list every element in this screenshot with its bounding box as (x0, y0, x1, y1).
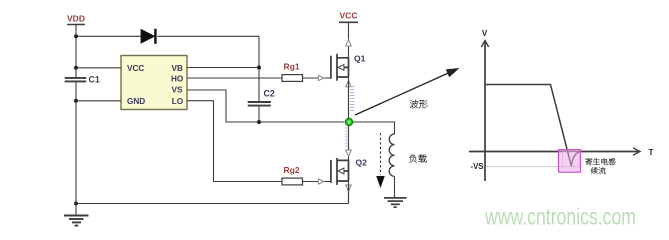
power rail VCC (339, 11, 358, 23)
capacitor C2 (248, 88, 275, 105)
label 负载 (load) (409, 154, 426, 162)
wire: GND pin to rail (76, 100, 121, 102)
svg-text:-VS: -VS (471, 162, 484, 171)
wire: inductor to ground (394, 176, 396, 197)
wire: LO pin to Rg2 (187, 101, 282, 182)
svg-text:VCC: VCC (340, 11, 358, 21)
wire: VCC to Q1 drain (348, 22, 350, 58)
wire: Q1 source to switch node (348, 77, 350, 118)
svg-text:C1: C1 (89, 75, 100, 85)
wire: switch node to Q2 drain (348, 122, 350, 160)
junction: VDD / top rail (74, 34, 78, 38)
driver IC U1 (121, 56, 187, 110)
svg-text:HO: HO (171, 74, 184, 83)
svg-text:Q1: Q1 (354, 53, 366, 63)
svg-text:C2: C2 (264, 88, 275, 98)
pin arrow: Q1 source (346, 81, 352, 87)
parasitic inductance hatch (lower) (345, 128, 348, 146)
V axis (481, 29, 488, 181)
ground (left) (64, 204, 89, 226)
wire: Rg1 to Q1 gate (303, 77, 331, 79)
pin arrow: Q2 source (346, 185, 352, 191)
pin arrow: Q1 drain (346, 40, 352, 46)
wire: VB pin to bootstrap node (187, 67, 259, 69)
wire: bootstrap vertical (VB/C2) (258, 36, 260, 122)
label 寄生电感 续流 (585, 158, 615, 165)
transistor Q1 (331, 53, 366, 81)
junction: VB wire (257, 66, 261, 70)
wire: VCC pin to rail (76, 67, 121, 69)
power rail VDD (67, 14, 85, 25)
annotation arrow to waveform plot (355, 68, 460, 115)
junction: VCC pin / rail (74, 66, 78, 70)
wire: VDD rail vertical (75, 25, 77, 204)
svg-text:www.cntronics.com: www.cntronics.com (484, 203, 636, 229)
svg-text:VCC: VCC (127, 64, 144, 73)
junction: C2 / VS wire (257, 120, 261, 124)
pin arrow: Q2 gate (318, 179, 323, 184)
wire: HO pin to Rg1 (187, 77, 282, 79)
pin arrow: Q1 gate (318, 75, 323, 80)
ground (load) (384, 198, 407, 207)
-VS level label and line (471, 152, 581, 171)
svg-text:GND: GND (127, 97, 145, 106)
waveform trace (486, 85, 580, 167)
svg-text:LO: LO (172, 97, 184, 106)
node VS (switch node) (346, 119, 353, 126)
wire: VS pin to switch node (187, 90, 345, 122)
highlight box (parasitic inductance freewheeling) (559, 150, 581, 173)
wire: bottom ground rail (76, 203, 349, 205)
T axis (469, 148, 654, 157)
parasitic inductance hatch (upper) (350, 87, 354, 111)
svg-text:VB: VB (172, 64, 183, 73)
transistor Q2 (331, 158, 367, 185)
wire: Rg2 to Q2 gate (303, 181, 331, 183)
svg-text:V: V (482, 29, 488, 38)
label 波形 (waveform) (410, 100, 428, 108)
wire: top bootstrap rail (76, 35, 259, 37)
svg-text:Rg2: Rg2 (284, 165, 300, 175)
svg-text:Q2: Q2 (356, 158, 368, 168)
junction: ground rail / VDD rail (74, 202, 78, 206)
wire: switch node to load (353, 122, 395, 134)
resistor Rg1 (282, 61, 303, 81)
svg-text:Rg1: Rg1 (284, 61, 300, 71)
capacitor C1 (65, 75, 100, 85)
wire: Q2 source to ground rail (348, 181, 350, 204)
svg-text:VDD: VDD (67, 14, 85, 24)
load inductor (389, 134, 394, 176)
junction: GND pin / rail (74, 99, 78, 103)
resistor Rg2 (282, 165, 303, 185)
current direction arrow (load) (376, 133, 385, 188)
pin arrow: Q2 drain (346, 150, 352, 156)
svg-text:VS: VS (172, 86, 183, 95)
svg-text:T: T (649, 148, 654, 157)
diode D1 (141, 29, 156, 44)
